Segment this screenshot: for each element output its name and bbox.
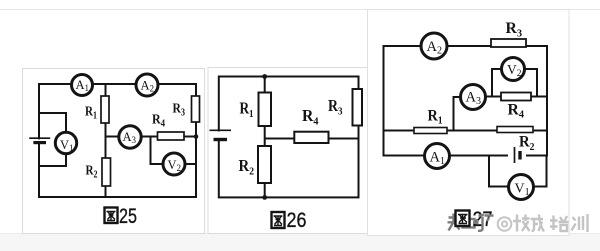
ammeter A1 图27 [425, 144, 450, 169]
wire: R1-R2 vertical branch 图25 [105, 84, 107, 197]
wire: V2 parallel loop 图27 [492, 69, 537, 97]
wire: V1 branch 图27 [489, 156, 547, 187]
resistor R2 图25 [102, 158, 111, 186]
caption 图27 [456, 208, 493, 231]
watermark 训 [572, 214, 588, 232]
ammeter A2 图25 [136, 74, 158, 96]
wire: middle branch R1-R2 图27 [384, 130, 548, 132]
middle panel frame [208, 68, 369, 234]
wire: A3 tap branch 图27 [454, 97, 463, 131]
resistor R1 图27 [414, 128, 447, 134]
junction node 图26 bottom [262, 195, 267, 200]
svg-text:26: 26 [287, 209, 307, 232]
wire: outer loop 图26 [219, 77, 359, 198]
ammeter A3 图25 [119, 126, 141, 148]
watermark 乎 over caption [473, 215, 494, 231]
junction node 图26 top [262, 74, 267, 79]
junction node 图25 right [194, 134, 199, 139]
top divider line [0, 9, 600, 11]
bottom strip [0, 234, 600, 251]
resistor R3 图27 [491, 39, 526, 47]
watermark 培 [550, 216, 569, 232]
voltmeter V2 图25 [163, 153, 185, 175]
resistor R4 图27 [501, 93, 531, 101]
battery B1 图25 [29, 138, 50, 142]
wire: V2 branch 图25 [151, 137, 197, 165]
wire: A3 to R4 to right edge 图27 [484, 96, 547, 98]
svg-text:25: 25 [119, 205, 137, 228]
watermark @ [498, 217, 512, 231]
wire: middle branch to A3/R4 图25 [106, 136, 197, 138]
watermark 技 [513, 215, 530, 232]
resistor R2 图27 [497, 127, 533, 133]
resistor R4 图25 [158, 132, 185, 140]
resistor R1 图25 [101, 96, 109, 123]
resistor R4 图26 [294, 132, 328, 143]
ammeter A2 图27 [421, 33, 447, 59]
voltmeter V2 图27 [502, 58, 525, 81]
voltmeter V1 图27 [509, 175, 534, 200]
left panel frame [23, 69, 205, 234]
voltmeter V1 图25 [55, 132, 76, 153]
wire: R1-R2 vertical branch 图26 [264, 77, 266, 198]
watermark 成 [531, 215, 545, 232]
wire: outer loop 图27 [384, 46, 548, 156]
caption 图25 [105, 205, 138, 228]
wire: middle branch R4 图26 [265, 138, 359, 140]
caption 图26 [272, 209, 307, 232]
wire: outer loop 图25 [39, 84, 196, 197]
battery B3 图27 [508, 147, 526, 163]
resistor R2 图26 [258, 146, 271, 183]
resistor R3 图25 [192, 96, 200, 122]
resistor R3 图26 [353, 89, 363, 126]
right panel frame [368, 10, 570, 236]
battery B2 图26 [210, 130, 232, 139]
ammeter A3 图27 [461, 85, 486, 110]
watermark 知 under caption [448, 214, 475, 231]
resistor R1 图26 [259, 93, 272, 127]
ammeter A1 图25 [72, 75, 93, 96]
wire: V1 branch 图25 [39, 113, 66, 166]
